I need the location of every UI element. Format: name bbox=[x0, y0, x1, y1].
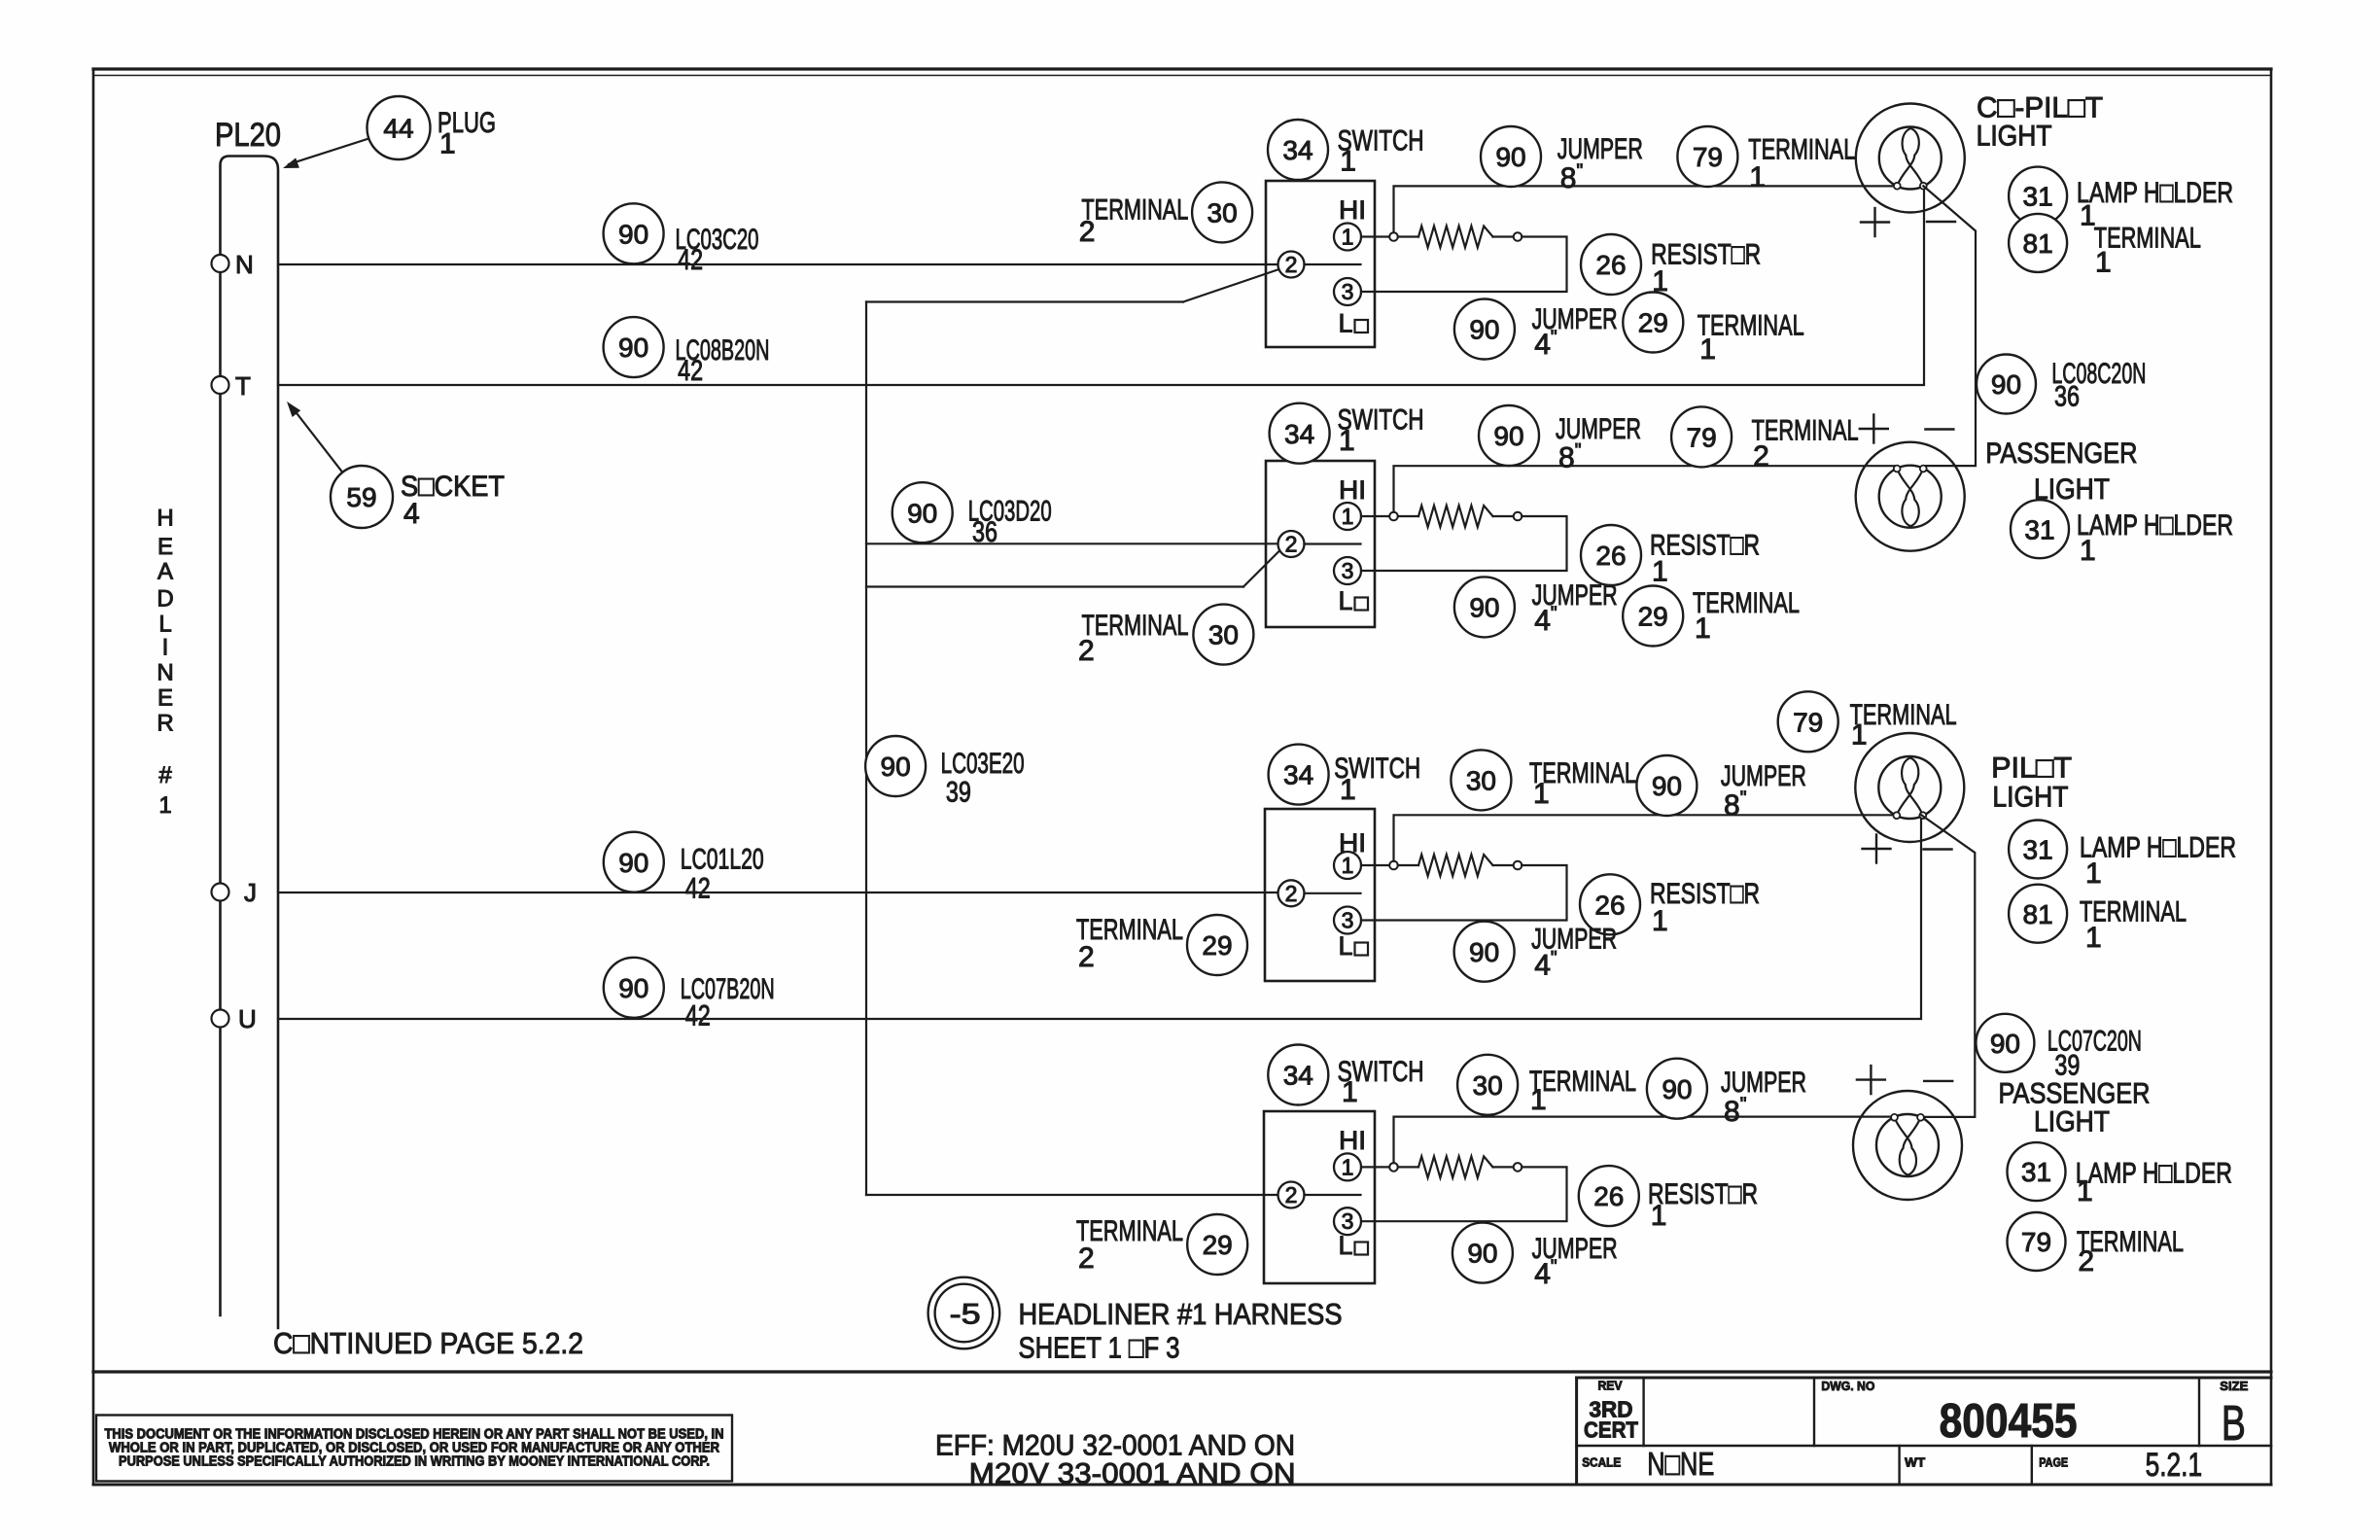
svg-text:R: R bbox=[157, 711, 173, 737]
svg-text:TERMINAL: TERMINAL bbox=[1081, 193, 1188, 226]
svg-text:90: 90 bbox=[1467, 1239, 1497, 1269]
label LC08C20N 36 bbox=[2051, 358, 2146, 413]
svg-text:1: 1 bbox=[1652, 905, 1668, 937]
svg-text:JUMPER: JUMPER bbox=[1557, 133, 1643, 165]
svg-text:LAMP H□LDER: LAMP H□LDER bbox=[2076, 1158, 2232, 1190]
label LAMP HOLDER 1 passenger 1 bbox=[2077, 509, 2233, 567]
svg-text:JUMPER: JUMPER bbox=[1721, 1067, 1806, 1099]
svg-text:42: 42 bbox=[685, 873, 711, 905]
svg-text:34: 34 bbox=[1283, 760, 1313, 790]
switch S2 pin 3 bbox=[1334, 557, 1361, 584]
label RESISTOR 1 switch S3 bbox=[1650, 878, 1760, 937]
svg-text:3: 3 bbox=[1342, 558, 1354, 583]
balloon -5 harness bbox=[928, 1277, 1000, 1349]
switch S2 label LO bbox=[1339, 586, 1369, 615]
connector pin T bbox=[212, 376, 229, 394]
svg-text:81: 81 bbox=[2023, 228, 2053, 259]
svg-text:1: 1 bbox=[1652, 265, 1668, 297]
balloon 81 terminal pilot bbox=[2009, 885, 2067, 943]
switch S1 pin 2 bbox=[1278, 252, 1305, 278]
passenger lamp 1 terminal node left bbox=[1894, 466, 1901, 472]
balloon 26 resistor switch S2 bbox=[1581, 525, 1641, 585]
passenger lamp 2 inner circle bbox=[1876, 1114, 1939, 1176]
label LC03C20 42 bbox=[676, 224, 759, 276]
balloon 90 jumper 4in switch S4 bbox=[1452, 1223, 1513, 1283]
balloon 90 wire LC03D20 bbox=[892, 482, 953, 542]
wire node to resistor R1 bbox=[1398, 235, 1418, 237]
svg-text:HI: HI bbox=[1339, 195, 1366, 225]
svg-text:A: A bbox=[157, 559, 173, 585]
balloon 34 switch S4 bbox=[1268, 1045, 1328, 1105]
wire switch S4 pin 1 to node bbox=[1361, 1166, 1389, 1168]
balloon 90 jumper 8in switch S1 bbox=[1481, 126, 1541, 187]
balloon 44 bbox=[367, 96, 431, 159]
balloon 79 terminal switch S2 bbox=[1671, 406, 1732, 467]
label TERMINAL 1 switch S3 bbox=[1529, 757, 1636, 810]
label SWITCH 1 switch S2 bbox=[1338, 404, 1424, 457]
svg-text:1: 1 bbox=[1342, 853, 1354, 878]
balloon 90 jumper 8in switch S2 bbox=[1479, 405, 1539, 466]
label SOCKET 4 bbox=[401, 471, 505, 530]
svg-text:E: E bbox=[157, 685, 173, 712]
switch S1 pin 2 internal stub bbox=[1305, 263, 1361, 265]
svg-text:#: # bbox=[158, 762, 172, 788]
svg-text:2: 2 bbox=[1753, 440, 1769, 472]
svg-text:30: 30 bbox=[1207, 197, 1238, 227]
svg-text:L: L bbox=[1339, 309, 1353, 338]
pilot lamp terminal node right bbox=[1919, 812, 1926, 819]
svg-text:29: 29 bbox=[1202, 930, 1232, 961]
switch S4 label LO bbox=[1339, 1231, 1369, 1260]
wire LC03C20 pin N to switch 1 pin 2 bbox=[278, 263, 1278, 265]
co-pilot lamp terminal node right bbox=[1920, 183, 1927, 190]
svg-text:PURPOSE UNLESS SPECIFICALLY AU: PURPOSE UNLESS SPECIFICALLY AUTHORIZED I… bbox=[119, 1454, 710, 1470]
balloon 34 switch S2 bbox=[1270, 403, 1330, 464]
svg-text:90: 90 bbox=[881, 752, 911, 782]
balloon 90 wire LC01L20 bbox=[604, 832, 664, 892]
svg-text:1: 1 bbox=[439, 128, 456, 160]
svg-text:2: 2 bbox=[1285, 532, 1298, 557]
svg-text:29: 29 bbox=[1638, 308, 1668, 338]
balloon 31 lamp holder pilot bbox=[2009, 821, 2067, 879]
label JUMPER 8in switch S3 bbox=[1721, 760, 1806, 822]
svg-text:1: 1 bbox=[1342, 225, 1354, 250]
svg-text:31: 31 bbox=[2023, 182, 2053, 212]
label RESISTOR 1 switch S4 bbox=[1648, 1178, 1758, 1232]
svg-text:1: 1 bbox=[1651, 1200, 1667, 1232]
wire co-pilot minus to passenger light 1 minus bbox=[1923, 186, 1976, 466]
wire jumper 8in switch S2 to lamp bbox=[1394, 466, 1898, 512]
svg-text:90: 90 bbox=[1469, 592, 1499, 622]
title block REV cell bbox=[1584, 1379, 1638, 1443]
svg-text:HI: HI bbox=[1339, 475, 1366, 505]
title block SIZE cell bbox=[2220, 1379, 2248, 1451]
label JUMPER 4in switch S3 bbox=[1531, 924, 1617, 982]
node B switch S1 bbox=[1514, 232, 1522, 241]
pilot lamp inner circle bbox=[1878, 756, 1941, 819]
svg-text:WT: WT bbox=[1905, 1455, 1925, 1470]
switch S1 label LO bbox=[1339, 309, 1369, 338]
pilot lamp terminal node left bbox=[1893, 812, 1900, 819]
svg-text:29: 29 bbox=[1638, 602, 1668, 632]
label TERMINAL 2 passenger 2 bbox=[2077, 1226, 2184, 1277]
svg-text:1: 1 bbox=[1652, 556, 1668, 588]
switch S4 pin 3 bbox=[1334, 1207, 1361, 1235]
svg-text:79: 79 bbox=[1693, 142, 1723, 172]
label TERMINAL 2 lower switch S4 bbox=[1076, 1215, 1183, 1275]
bus wire branch to switch 1 pin 2 bbox=[866, 269, 1280, 302]
svg-text:26: 26 bbox=[1593, 1181, 1624, 1211]
passenger light 1 plus sign bbox=[1860, 428, 1888, 430]
resistor R3 bbox=[1418, 855, 1493, 876]
wire jumper 8in switch S3 to lamp bbox=[1394, 815, 1896, 860]
balloon 30 terminal switch S1 bbox=[1192, 182, 1252, 242]
label PASSENGER LIGHT 2 bbox=[1999, 1078, 2151, 1138]
svg-text:JUMPER: JUMPER bbox=[1721, 760, 1806, 792]
title block SCALE cell bbox=[1582, 1446, 1714, 1482]
disclaimer box bbox=[96, 1416, 732, 1482]
balloon 30 terminal switch S3 bbox=[1451, 750, 1511, 810]
node A switch S2 bbox=[1389, 512, 1398, 521]
wire node to resistor R3 bbox=[1398, 864, 1418, 866]
title block DWG NO cell bbox=[1821, 1379, 2077, 1448]
title block PAGE cell bbox=[2039, 1447, 2202, 1484]
bus wire branch to switch 4 pin 2 bbox=[866, 1194, 1278, 1196]
passenger lamp 2 terminal node left bbox=[1891, 1114, 1898, 1121]
label PILOT LIGHT bbox=[1991, 752, 2072, 814]
label TERMINAL 1 co-pilot bbox=[2094, 223, 2201, 279]
vertical text HEADLINER #1 bbox=[157, 506, 173, 819]
switch S3 label LO bbox=[1339, 931, 1369, 961]
switch S3 pin 2 bbox=[1278, 880, 1305, 906]
wire switch S1 pin 1 to node bbox=[1361, 235, 1389, 237]
svg-text:1: 1 bbox=[1342, 1076, 1358, 1108]
svg-text:LIGHT: LIGHT bbox=[1992, 781, 2068, 813]
svg-text:90: 90 bbox=[1493, 421, 1523, 451]
svg-text:1: 1 bbox=[2085, 857, 2102, 890]
balloon 90 jumper 4in switch S3 bbox=[1454, 922, 1515, 982]
svg-text:90: 90 bbox=[618, 332, 648, 363]
label JUMPER 8in switch S2 bbox=[1556, 413, 1641, 474]
svg-text:34: 34 bbox=[1283, 1061, 1313, 1091]
wire node to resistor R2 bbox=[1398, 515, 1418, 517]
balloon 29 terminal switch S1 bbox=[1623, 293, 1683, 353]
switch S4 pin 2 internal stub bbox=[1305, 1194, 1361, 1196]
balloon 29 terminal 2 switch S4 bbox=[1187, 1214, 1247, 1275]
svg-text:T: T bbox=[235, 371, 251, 401]
label TERMINAL 1 pilot lamp bbox=[2080, 896, 2187, 955]
balloon 90 jumper 4in switch S2 bbox=[1454, 577, 1515, 637]
svg-text:LC01L20: LC01L20 bbox=[681, 843, 764, 875]
svg-text:3: 3 bbox=[1342, 279, 1354, 304]
label JUMPER 8in switch S4 bbox=[1721, 1067, 1806, 1128]
balloon 90 wire LC07C20N bbox=[1976, 1014, 2034, 1072]
label RESISTOR 1 switch S1 bbox=[1651, 239, 1761, 297]
wire LC08B20N pin T to co-pilot light minus bbox=[278, 187, 1924, 385]
svg-text:34: 34 bbox=[1284, 419, 1314, 449]
svg-text:I: I bbox=[162, 635, 169, 661]
svg-text:5.2.1: 5.2.1 bbox=[2146, 1447, 2203, 1484]
svg-text:3: 3 bbox=[1342, 1208, 1354, 1234]
svg-text:PAGE: PAGE bbox=[2039, 1455, 2068, 1470]
label PLUG 1 bbox=[437, 107, 496, 160]
label RESISTOR 1 switch S2 bbox=[1650, 530, 1760, 588]
svg-text:36: 36 bbox=[2054, 381, 2080, 413]
switch S1 pin 1 bbox=[1334, 224, 1361, 251]
svg-text:-5: -5 bbox=[950, 1299, 981, 1331]
svg-text:M20V 33-0001 AND ON: M20V 33-0001 AND ON bbox=[969, 1458, 1296, 1490]
svg-text:L: L bbox=[1339, 586, 1353, 615]
svg-text:29: 29 bbox=[1203, 1230, 1233, 1260]
resistor R1 bbox=[1418, 227, 1493, 248]
svg-text:90: 90 bbox=[1652, 771, 1682, 801]
wire resistor R2 to node B bbox=[1493, 515, 1514, 517]
svg-text:90: 90 bbox=[1991, 369, 2021, 400]
balloon 90 wire LC03C20 bbox=[604, 203, 664, 263]
balloon 90 wire LC08B20N bbox=[604, 317, 664, 377]
wire node to resistor R4 bbox=[1398, 1166, 1418, 1168]
balloon 90 wire LC07B20N bbox=[604, 958, 664, 1018]
svg-text:SIZE: SIZE bbox=[2220, 1379, 2248, 1393]
svg-text:2: 2 bbox=[1285, 252, 1298, 277]
label EFF M20U M20V bbox=[935, 1430, 1296, 1490]
svg-text:SCALE: SCALE bbox=[1582, 1455, 1621, 1470]
switch S3 pin 3 bbox=[1334, 907, 1361, 934]
svg-text:2: 2 bbox=[1079, 216, 1096, 248]
svg-text:LC03E20: LC03E20 bbox=[941, 748, 1025, 780]
svg-text:1: 1 bbox=[1851, 719, 1868, 752]
balloon 29 terminal 2 switch S3 bbox=[1187, 915, 1247, 975]
svg-text:N: N bbox=[235, 250, 254, 279]
wire jumper 8in switch S4 to lamp bbox=[1394, 1117, 1895, 1164]
wire LO loop switch S3 (jumper 4in) bbox=[1361, 865, 1567, 921]
svg-text:26: 26 bbox=[1594, 890, 1625, 920]
svg-text:79: 79 bbox=[1793, 707, 1823, 737]
svg-text:HI: HI bbox=[1339, 1126, 1366, 1155]
svg-text:LIGHT: LIGHT bbox=[2034, 1106, 2110, 1138]
svg-text:N□NE: N□NE bbox=[1647, 1446, 1714, 1482]
svg-text:N: N bbox=[157, 660, 173, 686]
svg-text:90: 90 bbox=[1469, 937, 1499, 967]
balloon 26 resistor switch S1 bbox=[1581, 234, 1641, 295]
svg-text:81: 81 bbox=[2023, 899, 2053, 929]
svg-text:42: 42 bbox=[685, 1000, 711, 1032]
svg-text:90: 90 bbox=[618, 973, 648, 1003]
label PASSENGER LIGHT 1 bbox=[1985, 437, 2137, 506]
label LC08B20N 42 bbox=[676, 334, 770, 387]
switch S2 body bbox=[1266, 461, 1375, 627]
balloon 59 SOCKET leader arrow bbox=[287, 402, 342, 472]
svg-text:C□NTINUED PAGE 5.2.2: C□NTINUED PAGE 5.2.2 bbox=[273, 1326, 583, 1360]
label HEADLINER #1 HARNESS SHEET 1 OF 3 bbox=[1019, 1297, 1343, 1365]
switch S4 pin 2 bbox=[1278, 1182, 1305, 1208]
balloon 30 terminal switch S2 bbox=[1193, 605, 1253, 665]
switch S4 body bbox=[1264, 1111, 1375, 1283]
co-pilot light plus sign bbox=[1861, 221, 1889, 223]
balloon 59 bbox=[331, 466, 393, 528]
svg-text:D: D bbox=[157, 585, 173, 612]
label SWITCH 1 switch S1 bbox=[1338, 125, 1424, 178]
svg-text:LAMP H□LDER: LAMP H□LDER bbox=[2080, 831, 2236, 863]
svg-text:90: 90 bbox=[618, 219, 648, 249]
disclaimer text bbox=[105, 1426, 724, 1469]
svg-text:44: 44 bbox=[383, 114, 413, 144]
label TERMINAL 1 switch S4 bbox=[1529, 1066, 1636, 1116]
svg-text:CERT: CERT bbox=[1584, 1417, 1638, 1443]
balloon 30 terminal switch S4 bbox=[1457, 1055, 1518, 1115]
svg-text:1: 1 bbox=[158, 792, 171, 819]
svg-text:E: E bbox=[157, 534, 173, 560]
balloon 34 switch S3 bbox=[1269, 745, 1329, 805]
svg-text:REV: REV bbox=[1598, 1379, 1623, 1393]
balloon 31 lamp holder passenger 1 bbox=[2011, 500, 2069, 558]
balloon 26 resistor switch S3 bbox=[1580, 874, 1640, 934]
svg-text:26: 26 bbox=[1595, 250, 1626, 280]
svg-text:LAMP H□LDER: LAMP H□LDER bbox=[2077, 177, 2233, 209]
svg-text:1: 1 bbox=[1340, 146, 1356, 178]
label TERMINAL 2 lower switch S3 bbox=[1076, 914, 1183, 973]
balloon 34 switch S1 bbox=[1268, 120, 1328, 180]
svg-text:36: 36 bbox=[972, 516, 997, 548]
svg-text:1: 1 bbox=[1530, 1084, 1547, 1116]
switch S3 pin 2 internal stub bbox=[1305, 892, 1361, 894]
balloon 90 jumper 8in switch S3 bbox=[1636, 755, 1697, 816]
svg-text:1: 1 bbox=[2085, 922, 2102, 954]
label LC01L20 42 bbox=[681, 843, 764, 904]
wire resistor R4 to node B bbox=[1493, 1166, 1514, 1168]
co-pilot lamp filament bbox=[1897, 128, 1923, 186]
balloon 90 wire LC08C20N bbox=[1977, 355, 2036, 414]
balloon 79 terminal switch S1 bbox=[1677, 126, 1737, 187]
svg-text:2: 2 bbox=[1285, 881, 1298, 906]
connector pin N bbox=[212, 255, 229, 272]
balloon 90 wire LC03E20 bbox=[865, 736, 926, 796]
svg-text:U: U bbox=[238, 1004, 257, 1033]
switch S4 pin 1 bbox=[1334, 1153, 1361, 1180]
balloon 44 PLUG leader arrow bbox=[283, 139, 368, 169]
wire LC01L20 pin J to switch 3 pin 2 bbox=[278, 892, 1278, 893]
svg-text:2: 2 bbox=[1285, 1182, 1298, 1207]
svg-text:DWG. NO: DWG. NO bbox=[1821, 1379, 1874, 1393]
svg-text:LIGHT: LIGHT bbox=[1977, 120, 2052, 152]
svg-text:39: 39 bbox=[946, 777, 971, 809]
wire resistor R1 to node B bbox=[1493, 235, 1514, 237]
switch S3 pin 1 bbox=[1334, 852, 1361, 879]
svg-text:34: 34 bbox=[1282, 135, 1312, 165]
svg-text:79: 79 bbox=[1687, 422, 1717, 452]
switch S1 body bbox=[1266, 181, 1375, 347]
svg-text:4: 4 bbox=[403, 498, 420, 530]
passenger lamp 1 outer circle bbox=[1856, 442, 1965, 551]
svg-text:31: 31 bbox=[2024, 514, 2054, 544]
node A switch S4 bbox=[1389, 1163, 1398, 1172]
svg-text:31: 31 bbox=[2023, 835, 2053, 865]
svg-text:J: J bbox=[244, 878, 257, 907]
balloon 31 lamp holder co-pilot bbox=[2009, 167, 2067, 226]
svg-text:90: 90 bbox=[907, 498, 937, 528]
label JUMPER 8in switch S1 bbox=[1557, 133, 1643, 194]
passenger lamp 2 outer circle bbox=[1853, 1091, 1962, 1200]
svg-text:90: 90 bbox=[618, 848, 648, 878]
wire LO loop switch S4 (jumper 4in) bbox=[1361, 1167, 1567, 1221]
passenger lamp 1 filament bbox=[1897, 469, 1923, 526]
label JUMPER 4in switch S1 bbox=[1532, 303, 1618, 361]
node B switch S3 bbox=[1514, 861, 1522, 870]
svg-text:2: 2 bbox=[1078, 941, 1095, 973]
svg-text:90: 90 bbox=[1495, 142, 1525, 172]
wire LO loop switch S2 (jumper 4in) bbox=[1361, 516, 1567, 571]
svg-text:26: 26 bbox=[1595, 541, 1626, 571]
passenger lamp 2 terminal node right bbox=[1917, 1114, 1924, 1121]
wire LC07B20N pin U to pilot light minus bbox=[278, 815, 1921, 1019]
wire jumper 8in switch S1 to lamp bbox=[1394, 186, 1899, 232]
svg-text:HEADLINER #1 HARNESS: HEADLINER #1 HARNESS bbox=[1019, 1297, 1343, 1331]
balloon 90 jumper 4in switch S1 bbox=[1454, 299, 1515, 360]
svg-text:H: H bbox=[157, 506, 173, 532]
pilot lamp filament bbox=[1897, 758, 1923, 816]
co-pilot lamp terminal node left bbox=[1894, 183, 1901, 190]
label TERMINAL 1 lower switch S1 bbox=[1697, 309, 1804, 366]
svg-text:1: 1 bbox=[1340, 774, 1356, 806]
wire LO loop switch S1 (jumper 4in) bbox=[1361, 237, 1567, 293]
svg-text:90: 90 bbox=[1662, 1074, 1692, 1104]
svg-text:1: 1 bbox=[1699, 333, 1716, 366]
node B switch S4 bbox=[1514, 1163, 1522, 1172]
svg-text:JUMPER: JUMPER bbox=[1556, 413, 1641, 445]
label TERMINAL 1 pilot bbox=[1850, 699, 1957, 752]
balloon 26 resistor switch S4 bbox=[1579, 1166, 1639, 1226]
balloon 31 lamp holder passenger 2 bbox=[2008, 1142, 2066, 1201]
svg-text:1: 1 bbox=[1695, 612, 1711, 645]
svg-text:30: 30 bbox=[1208, 620, 1239, 650]
passenger light 2 minus sign bbox=[1924, 1080, 1952, 1082]
svg-text:2: 2 bbox=[1078, 635, 1095, 667]
svg-text:SHEET 1 □F 3: SHEET 1 □F 3 bbox=[1019, 1331, 1180, 1365]
svg-text:L: L bbox=[158, 611, 171, 637]
wire switch S3 pin 1 to node bbox=[1361, 864, 1389, 866]
svg-text:30: 30 bbox=[1466, 765, 1496, 795]
node A switch S3 bbox=[1389, 861, 1398, 870]
switch S2 pin 1 bbox=[1334, 503, 1361, 530]
svg-text:1: 1 bbox=[1749, 161, 1766, 193]
balloon 79 terminal pilot light bbox=[1778, 691, 1838, 752]
label LAMP HOLDER 1 passenger 2 bbox=[2076, 1158, 2232, 1208]
label TERMINAL 2 switch S2 bbox=[1752, 415, 1859, 473]
svg-text:1: 1 bbox=[1342, 504, 1354, 529]
svg-text:B: B bbox=[2222, 1395, 2246, 1451]
bus wire branch from switch 2 pin 2 bbox=[866, 549, 1281, 587]
pilot lamp outer circle bbox=[1855, 733, 1964, 842]
svg-text:1: 1 bbox=[2095, 247, 2112, 279]
svg-text:42: 42 bbox=[678, 244, 703, 276]
svg-text:LAMP H□LDER: LAMP H□LDER bbox=[2077, 509, 2233, 542]
label TERMINAL 2 switch S1 bbox=[1079, 193, 1189, 248]
label JUMPER 4in switch S4 bbox=[1532, 1233, 1618, 1290]
svg-text:TERMINAL: TERMINAL bbox=[1082, 610, 1189, 642]
label LAMP HOLDER 1 co-pilot bbox=[2077, 177, 2233, 232]
svg-text:79: 79 bbox=[2021, 1227, 2051, 1257]
switch S1 pin 3 bbox=[1334, 278, 1361, 305]
node B switch S2 bbox=[1514, 512, 1522, 521]
co-pilot lamp inner circle bbox=[1879, 127, 1942, 190]
label TERMINAL 2 switch S2 bbox=[1078, 610, 1189, 667]
pilot light minus sign bbox=[1924, 848, 1952, 850]
svg-text:PASSENGER: PASSENGER bbox=[1985, 437, 2137, 470]
wire resistor R3 to node B bbox=[1493, 864, 1514, 866]
switch S2 pin 2 internal stub bbox=[1305, 542, 1361, 544]
label LC07B20N 42 bbox=[681, 973, 775, 1032]
passenger light 2 plus sign bbox=[1857, 1078, 1885, 1080]
